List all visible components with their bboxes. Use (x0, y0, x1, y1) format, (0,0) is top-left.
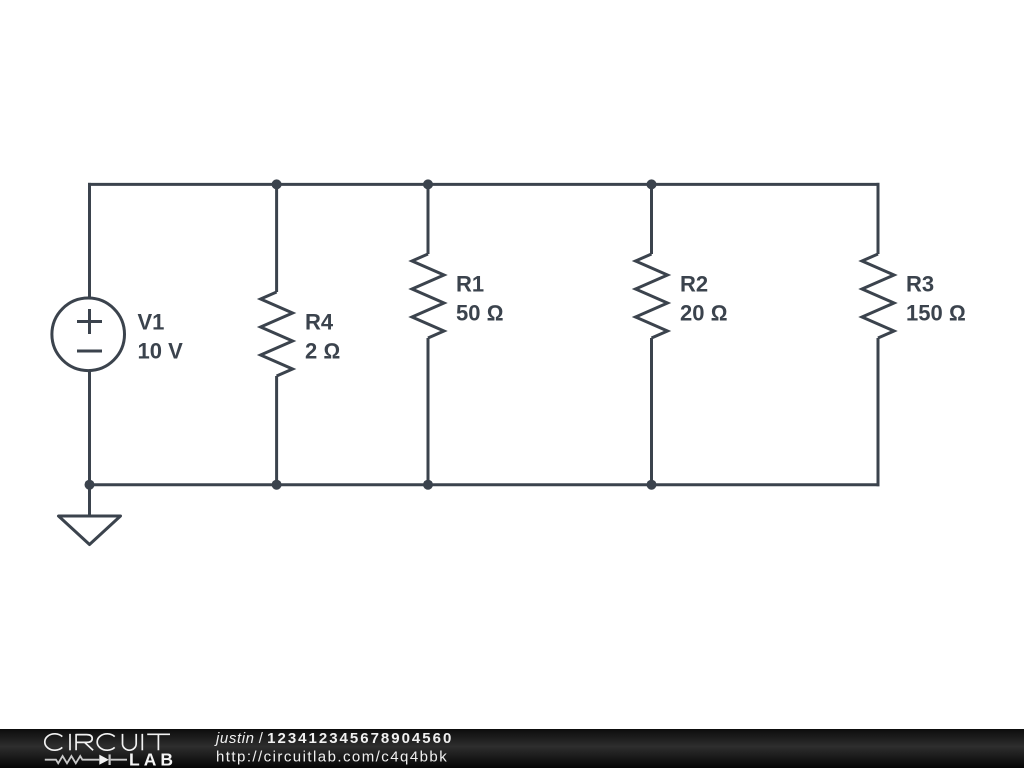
node dot top R2 (647, 179, 657, 189)
wire bottom rail (88, 483, 880, 486)
svg-text:20 Ω: 20 Ω (680, 301, 727, 326)
node dot top R1 (423, 179, 433, 189)
resistor R4 (261, 292, 293, 376)
resistor R1 (412, 254, 444, 338)
svg-text:R2: R2 (680, 272, 708, 297)
wire R3 upper lead (877, 183, 880, 254)
svg-text:http://circuitlab.com/c4q4bbk: http://circuitlab.com/c4q4bbk (216, 749, 448, 766)
node dot bottom ground (85, 480, 95, 490)
wire R2 upper lead (650, 184, 653, 254)
node dot bottom R1 (423, 480, 433, 490)
svg-text:2 Ω: 2 Ω (305, 339, 340, 364)
wire top rail (88, 183, 880, 186)
wire R1 lower lead (427, 338, 430, 485)
node dot top R4 (272, 179, 282, 189)
svg-text:R3: R3 (906, 272, 934, 297)
wire left branch upper (V1 to top rail) (88, 183, 91, 299)
wire R3 lower lead (877, 338, 880, 486)
wire R2 lower lead (650, 338, 653, 485)
wire R1 upper lead (427, 184, 430, 254)
footer bar (0, 729, 1024, 768)
svg-text:10 V: 10 V (138, 339, 184, 364)
voltage source V1 body (52, 298, 125, 371)
resistor R3 (862, 254, 894, 338)
svg-text:LAB: LAB (129, 749, 177, 768)
ground symbol (59, 516, 121, 545)
resistor R2 (636, 254, 668, 338)
wire ground stub (88, 485, 91, 515)
logo resistor-diode icon (45, 754, 127, 765)
node dot bottom R2 (647, 480, 657, 490)
svg-text:R4: R4 (305, 310, 334, 335)
svg-text:50 Ω: 50 Ω (456, 301, 503, 326)
svg-text:justin / 123412345678904560: justin / 123412345678904560 (214, 730, 453, 747)
svg-text:R1: R1 (456, 272, 484, 297)
svg-text:V1: V1 (138, 310, 165, 335)
svg-text:150 Ω: 150 Ω (906, 301, 966, 326)
logo CIRCUIT wordmark (45, 734, 170, 750)
wire R4 upper lead (275, 184, 278, 292)
node dot bottom R4 (272, 480, 282, 490)
wire R4 lower lead (275, 376, 278, 485)
wire left branch lower (V1 to bottom rail) (88, 370, 91, 485)
